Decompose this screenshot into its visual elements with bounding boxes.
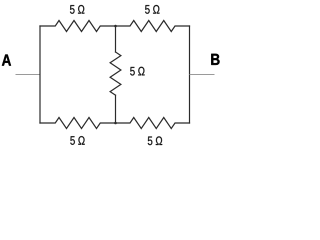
label R4 value 5 ohm	[70, 136, 84, 145]
resistor R1 top-left 5 ohm	[40, 21, 116, 32]
node junction top-middle	[114, 25, 117, 28]
wire middle vertical top lead	[115, 26, 117, 52]
resistor R4 bottom-left 5 ohm	[40, 118, 116, 129]
wire right vertical	[189, 26, 191, 123]
label R1 value 5 ohm	[70, 5, 84, 14]
label R3 value 5 ohm	[130, 67, 144, 76]
resistor R3 middle 5 ohm	[110, 52, 121, 95]
label R2 value 5 ohm	[145, 5, 159, 14]
wire middle vertical bottom lead	[115, 95, 117, 123]
wire node B lead	[190, 74, 215, 76]
wire left vertical	[39, 26, 41, 123]
wire node A lead	[16, 74, 41, 76]
resistor R5 bottom-right 5 ohm	[116, 118, 190, 129]
node junction bottom-middle	[114, 122, 117, 125]
label R5 value 5 ohm	[148, 136, 162, 145]
node B	[211, 54, 219, 65]
resistor R2 top-right 5 ohm	[116, 21, 190, 32]
node A	[2, 55, 11, 66]
